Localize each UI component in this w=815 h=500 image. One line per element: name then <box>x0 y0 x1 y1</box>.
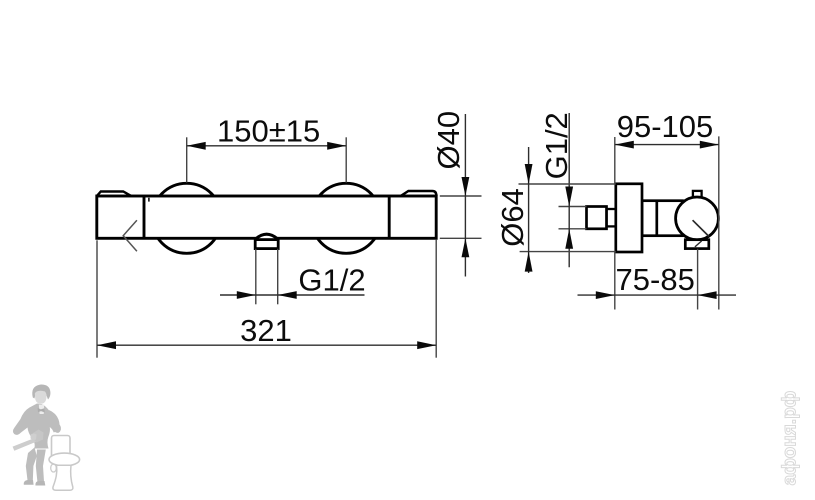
dim Ø40 line <box>464 114 466 277</box>
svg-text:150±15: 150±15 <box>217 114 320 149</box>
svg-text:95-105: 95-105 <box>617 109 714 144</box>
spout dome <box>256 234 278 239</box>
watermark plumber figure <box>13 385 80 491</box>
plumber jacket torso <box>13 404 61 449</box>
dim Ø64 line <box>528 147 530 273</box>
dim 75-85 line <box>578 294 737 296</box>
toilet bowl rim <box>49 453 80 466</box>
dim Ø40 arrow bottom <box>462 238 470 257</box>
thread block <box>587 207 607 229</box>
trousers left leg <box>26 448 37 482</box>
right cap boundary line <box>388 196 391 238</box>
shirt <box>39 405 44 415</box>
dim 95-105 extension right <box>718 136 720 309</box>
thread neck <box>607 209 617 226</box>
dim Ø64 extension bottom <box>520 251 616 253</box>
toilet flush knob <box>51 464 57 472</box>
trousers right leg <box>36 450 46 482</box>
dim G1/2 front arrow right <box>278 291 297 299</box>
dim G1/2 front extension right <box>277 249 279 304</box>
toilet pedestal <box>53 465 73 490</box>
svg-text:афоня.рф: афоня.рф <box>780 391 801 486</box>
outlet slash <box>695 241 702 247</box>
mixer body bar <box>97 196 436 238</box>
plumber face <box>35 391 47 404</box>
dim 150±15 extension line left <box>186 137 188 182</box>
dim 95-105 arrow left <box>615 141 634 149</box>
dim G1/2 front extension left <box>255 249 257 304</box>
dim 321 arrow right <box>417 341 436 349</box>
plumber hair <box>32 385 50 400</box>
right cap ridge <box>401 191 437 196</box>
dim G1/2 side arrow top <box>565 187 573 207</box>
right knob circle <box>311 183 381 253</box>
spout nut <box>255 240 278 249</box>
dim 95-105 arrow right <box>700 141 719 149</box>
dim 95-105 line <box>615 144 719 146</box>
dim G1/2 side line <box>568 113 570 267</box>
knob top nub <box>693 191 702 199</box>
dim 150±15 extension line right <box>345 137 347 182</box>
dim Ø64 arrow bottom <box>525 252 533 272</box>
toilet tank <box>52 436 71 460</box>
dim G1/2 side extension bottom <box>559 228 587 230</box>
body housing <box>642 201 683 236</box>
right shoe <box>35 481 45 486</box>
bow tie <box>38 408 45 413</box>
svg-text:75-85: 75-85 <box>616 262 695 297</box>
chevron mark <box>123 220 137 251</box>
svg-text:G1/2: G1/2 <box>539 112 574 179</box>
dim 321 extension left <box>96 240 98 357</box>
dim 75-85 extension left <box>614 252 616 310</box>
plumber right arm on tank <box>49 410 60 433</box>
dim 75-85 arrow right <box>698 291 717 299</box>
dim G1/2 front line <box>220 294 365 296</box>
dim G1/2 front arrow left <box>237 291 256 299</box>
knob circle side <box>676 197 719 240</box>
dim 95-105 extension left <box>614 137 616 184</box>
dim Ø40 arrow top <box>462 177 470 196</box>
svg-text:G1/2: G1/2 <box>298 262 365 297</box>
dim Ø64 arrow top <box>525 164 533 184</box>
dim Ø40 extension bottom <box>440 237 482 239</box>
dim 321 extension right <box>435 240 437 358</box>
knob diagonal <box>693 220 709 236</box>
svg-text:Ø40: Ø40 <box>431 111 466 170</box>
svg-text:321: 321 <box>240 313 292 348</box>
left knob circle <box>152 183 222 253</box>
dim 75-85 extension right <box>697 249 699 310</box>
wrench head <box>33 430 44 443</box>
body inner line <box>655 201 658 236</box>
dim 75-85 arrow left <box>596 291 615 299</box>
left shoe <box>24 480 34 485</box>
dim 150±15 arrow left <box>187 142 206 150</box>
svg-text:Ø64: Ø64 <box>495 188 530 247</box>
left cap boundary line <box>143 196 146 238</box>
outlet nut <box>685 240 709 249</box>
dim G1/2 side arrow bottom <box>565 229 573 249</box>
dim Ø64 extension top <box>519 183 616 185</box>
dim 321 line <box>97 344 436 346</box>
small tick mark <box>148 198 150 202</box>
dim 150±15 line <box>187 145 347 147</box>
dim 150±15 arrow right <box>327 142 346 150</box>
hand on wrench <box>31 434 37 440</box>
wall flange <box>616 184 642 252</box>
dim G1/2 side extension top <box>559 206 587 208</box>
wrench handle <box>13 438 38 451</box>
dim Ø40 extension top <box>440 195 482 197</box>
dim 321 arrow left <box>97 341 116 349</box>
left cap ridge <box>97 192 132 197</box>
